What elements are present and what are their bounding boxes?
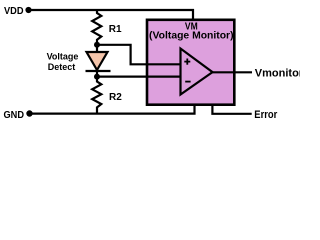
svg-text:Detect: Detect [48, 62, 76, 72]
wire VDD drop into VM box [192, 9, 194, 20]
diode cathode bar [86, 70, 111, 72]
op-amp + symbol [184, 61, 190, 63]
resistor R2 [92, 77, 101, 114]
svg-text:Voltage: Voltage [47, 52, 79, 62]
node GND dot [26, 110, 32, 116]
wire GND rail [29, 105, 195, 114]
diode D1 voltage detect (anode top, cathode bar bottom) [87, 52, 108, 70]
wire diode cathode lead [96, 70, 98, 77]
resistor R1 [92, 9, 101, 45]
node junction dot A (R1 / diode anode) [94, 42, 100, 48]
svg-text:R2: R2 [109, 92, 122, 103]
node junction dot B (diode cathode / R2 top) [94, 74, 100, 80]
svg-text:Error: Error [254, 109, 278, 121]
svg-text:(Voltage Monitor): (Voltage Monitor) [149, 31, 234, 42]
wire diode anode lead [96, 45, 98, 53]
svg-text:Vmonitor: Vmonitor [255, 67, 300, 79]
svg-text:GND: GND [4, 110, 25, 121]
svg-text:VDD: VDD [4, 6, 24, 17]
op-amp U1 comparator [181, 49, 213, 95]
wire VDD rail [28, 9, 194, 11]
op-amp - symbol [185, 81, 190, 83]
wire node B to op-amp - input [97, 75, 181, 77]
svg-text:R1: R1 [109, 24, 122, 35]
wire node A to op-amp + input [97, 45, 181, 65]
node VDD dot [25, 7, 31, 13]
block U1 VM (Voltage Monitor) [147, 20, 234, 105]
wire op-amp output to Vmonitor [213, 71, 253, 73]
wire Error output [212, 105, 251, 114]
